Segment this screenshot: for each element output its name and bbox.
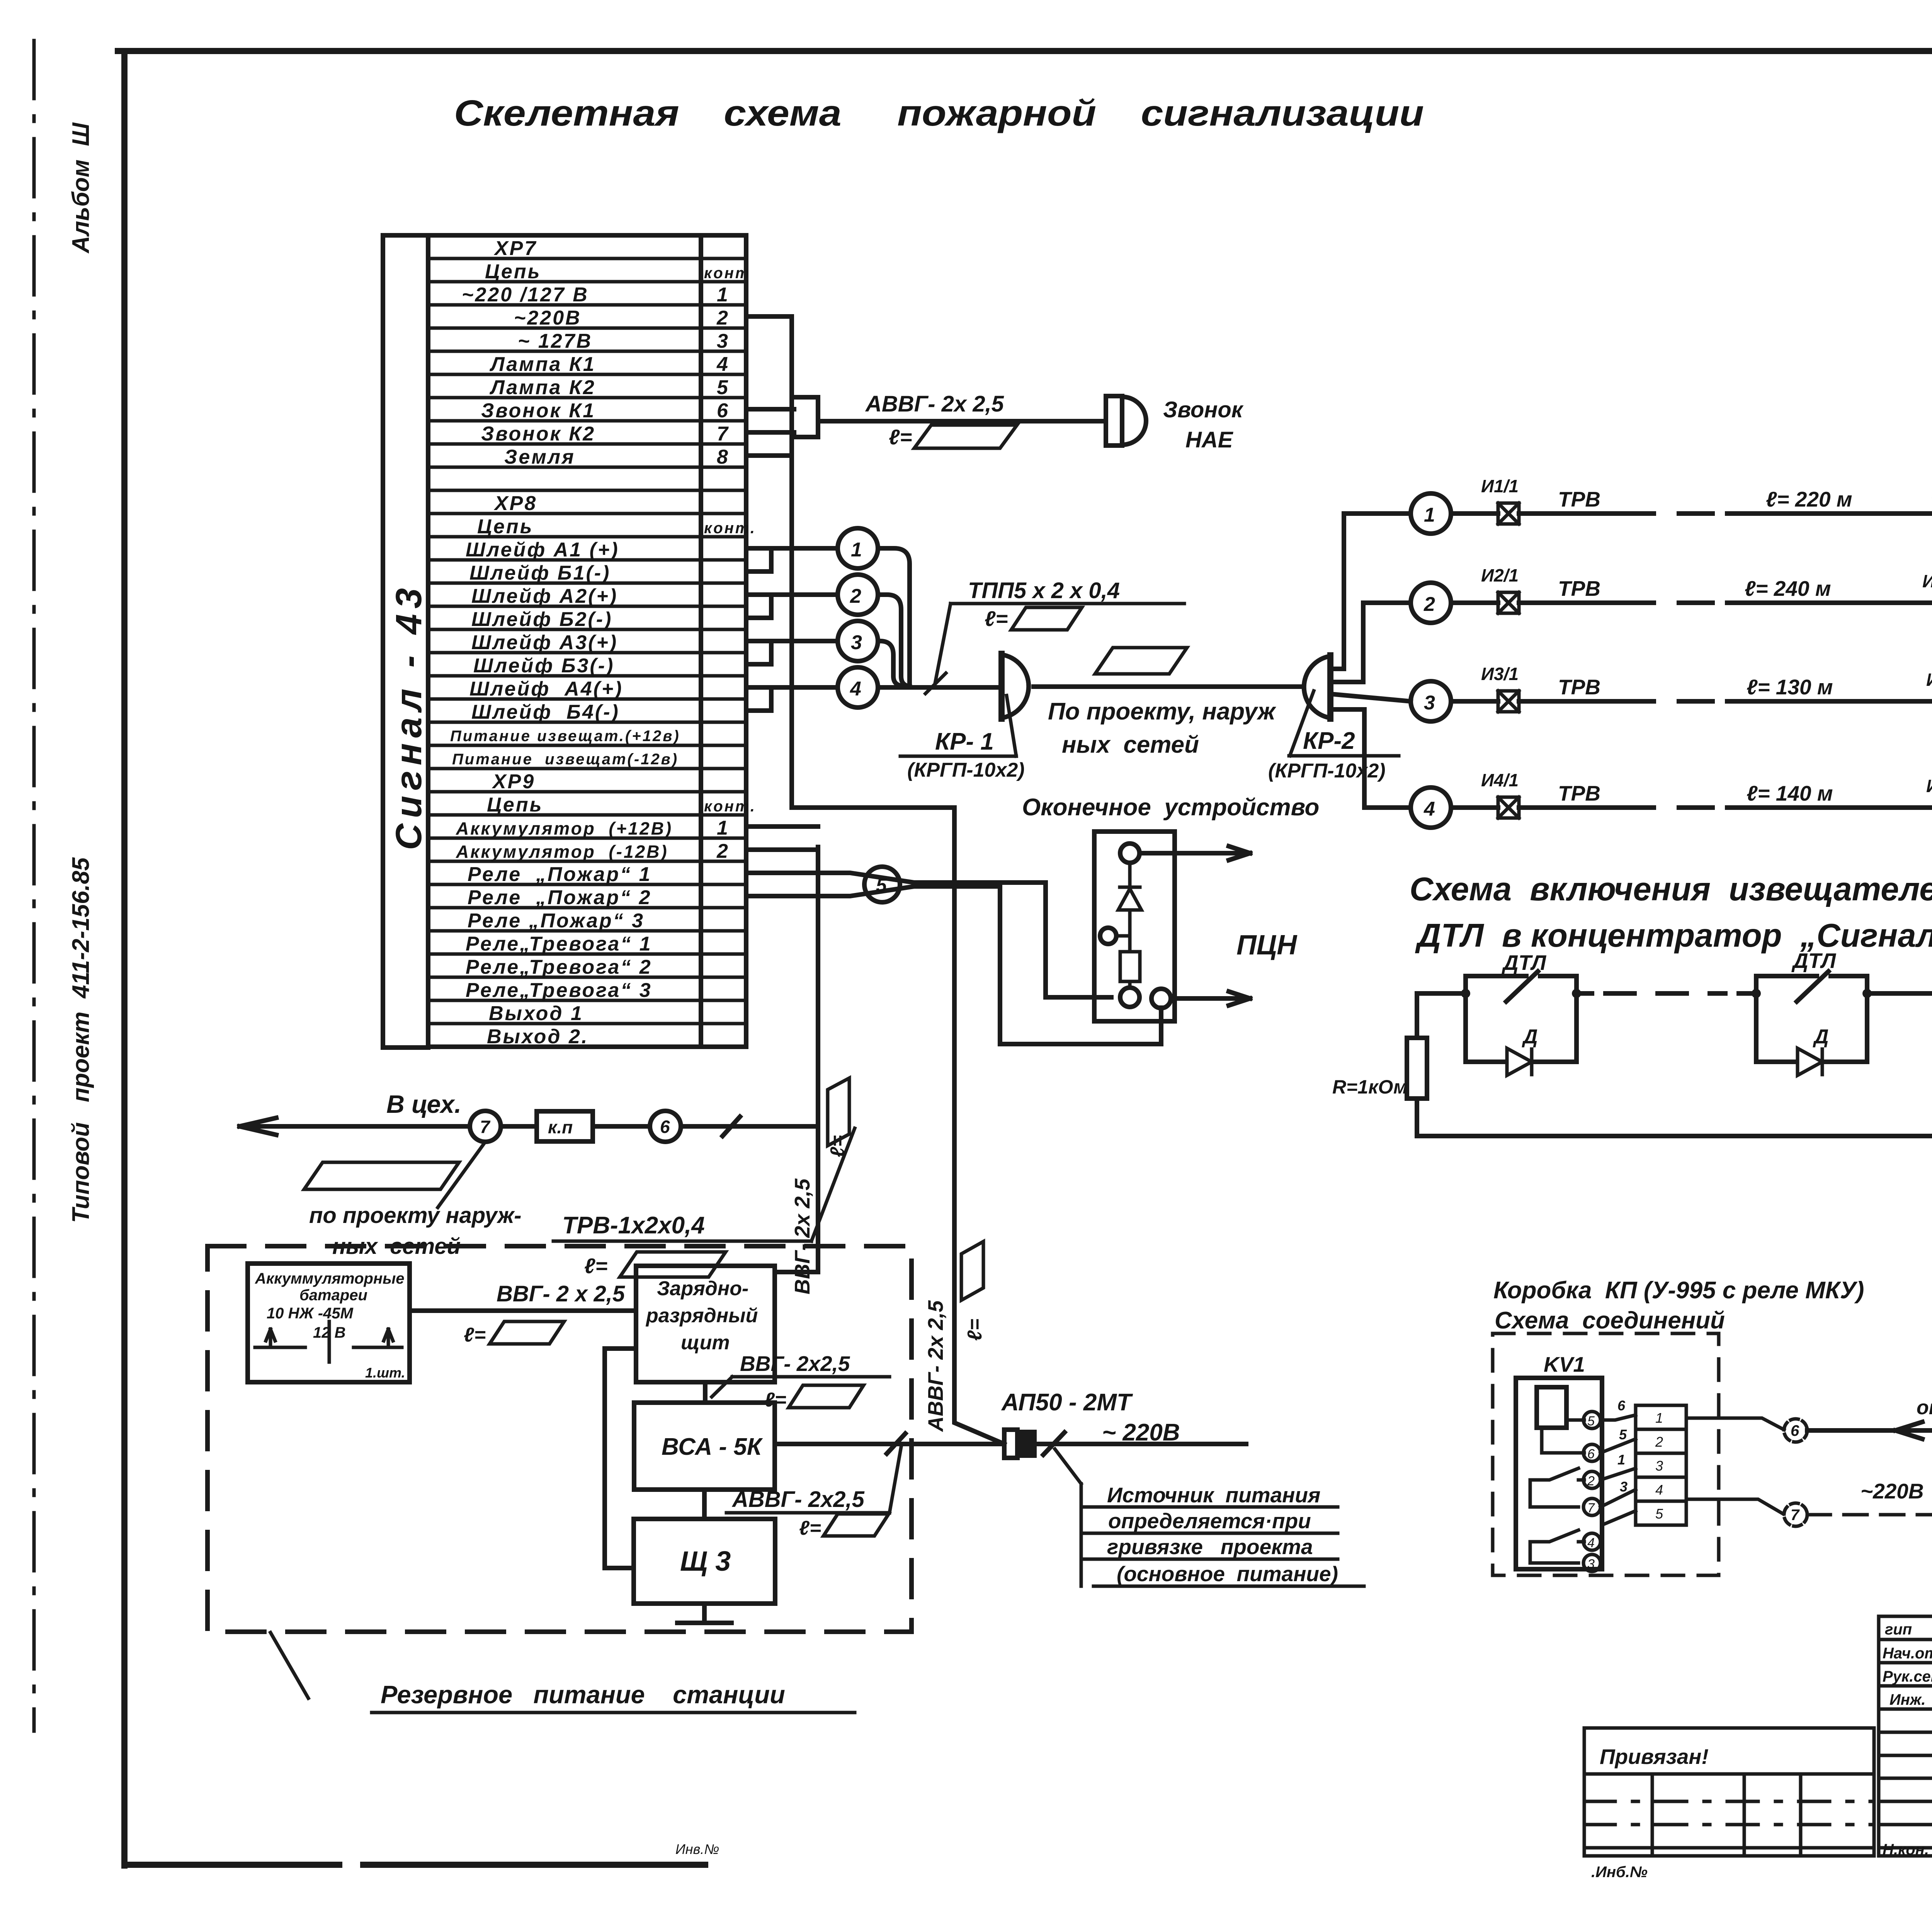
terminal device diode	[1118, 863, 1141, 952]
KP-2 label	[1268, 691, 1399, 782]
svg-text:Питание извещат(-12в): Питание извещат(-12в)	[452, 751, 679, 768]
detector И1/44	[1932, 482, 1932, 524]
node 7 (220V)	[1784, 1503, 1807, 1526]
svg-text:Реле„Тревога“ 1: Реле„Тревога“ 1	[466, 933, 652, 955]
svg-text:КР-2: КР-2	[1303, 728, 1355, 754]
svg-text:Реле„Тревога“ 2: Реле„Тревога“ 2	[466, 956, 652, 978]
cable label АВВГ-2х2,5 (output)	[726, 1447, 901, 1539]
svg-text:щит: щит	[681, 1332, 730, 1354]
connector table row texts	[450, 237, 756, 1048]
svg-text:Щ 3: Щ 3	[680, 1546, 731, 1577]
svg-text:Сигнал - 43: Сигнал - 43	[388, 583, 429, 850]
svg-text:Аккуммуляторные: Аккуммуляторные	[255, 1270, 405, 1287]
parallelogram (outside nets project)	[304, 1162, 459, 1189]
svg-text:ТРВ: ТРВ	[1558, 781, 1600, 805]
sheet frame left	[121, 51, 128, 1866]
wire from strip to node 7	[1686, 1499, 1783, 1514]
board Щ3	[634, 1519, 775, 1604]
detector ДТЛ 2	[1752, 949, 1872, 1002]
loop 4 node circle	[1411, 787, 1451, 828]
detector И4/27	[1926, 776, 1932, 818]
svg-text:7: 7	[1791, 1507, 1800, 1524]
svg-text:разрядный: разрядный	[645, 1304, 758, 1327]
node 5	[864, 867, 900, 902]
svg-text:ХР8: ХР8	[493, 492, 537, 515]
svg-text:ТПП5 х 2 х 0,4: ТПП5 х 2 х 0,4	[968, 578, 1120, 603]
svg-text:1: 1	[1424, 504, 1435, 526]
node 6 circle	[650, 1111, 681, 1142]
detector ДТЛ 1	[1461, 951, 1581, 1002]
diode Д 2	[1756, 993, 1867, 1075]
svg-text:конт: конт	[704, 265, 750, 282]
svg-text:конт.: конт.	[704, 520, 756, 537]
svg-text:1: 1	[1655, 1410, 1663, 1426]
svg-text:И4/1: И4/1	[1481, 770, 1519, 790]
svg-text:ℓ=: ℓ=	[889, 425, 912, 449]
svg-text:Звонок К2: Звонок К2	[481, 423, 595, 445]
svg-text:1: 1	[1617, 1452, 1625, 1468]
charging board (Зарядно-разрядный щит)	[636, 1266, 775, 1382]
svg-text:Питание извещат.(+12в): Питание извещат.(+12в)	[450, 728, 680, 745]
svg-text:КР- 1: КР- 1	[935, 728, 994, 755]
svg-text:6: 6	[717, 400, 730, 422]
title block signature table	[1879, 1616, 1932, 1856]
svg-text:ВВГ- 2 х 2,5: ВВГ- 2 х 2,5	[497, 1281, 625, 1306]
cable label ТРВ-1х2х0,4	[553, 1128, 855, 1278]
svg-text:1: 1	[717, 817, 730, 839]
svg-text:Зарядно-: Зарядно-	[657, 1277, 748, 1300]
terminal device (Оконечное устройство) box	[1094, 832, 1175, 1021]
wire К.П to node 6	[593, 1124, 650, 1129]
wire 220V bus from XP7 pin2 to AP50 switch	[746, 316, 1004, 1444]
terminal device resistor	[1120, 952, 1140, 981]
svg-text:Аккумулятор (+12В): Аккумулятор (+12В)	[456, 818, 673, 838]
wire station feed to charging board	[775, 847, 818, 1272]
wire main trunk to KP-1	[878, 685, 1002, 690]
svg-text:3: 3	[1655, 1458, 1663, 1474]
DTL loop bottom wire	[1417, 1099, 1932, 1136]
battery box	[248, 1264, 410, 1382]
svg-text:2: 2	[1423, 593, 1435, 616]
svg-text:3: 3	[851, 631, 862, 654]
svg-text:Шлейф А2(+): Шлейф А2(+)	[471, 585, 618, 607]
svg-text:4: 4	[850, 678, 861, 700]
svg-text:Реле„Тревога“ 3: Реле„Тревога“ 3	[466, 979, 652, 1002]
svg-text:4: 4	[716, 353, 730, 376]
wire to ПЦН lower arrow	[1171, 992, 1250, 1005]
relay KV1 coil	[1537, 1387, 1566, 1428]
svg-text:И2/45: И2/45	[1922, 571, 1932, 591]
svg-text:1: 1	[851, 539, 862, 561]
svg-text:3: 3	[1424, 692, 1435, 714]
detector loop 2 feeder wire	[1330, 603, 1411, 682]
wire XP9 pin2 stub	[746, 847, 818, 852]
ground symbol	[677, 1604, 731, 1623]
svg-text:Инв.№: Инв.№	[675, 1841, 719, 1857]
svg-text:Цепь: Цепь	[477, 515, 533, 538]
relay contact 2	[1530, 1530, 1584, 1563]
svg-text:ТРВ: ТРВ	[1558, 577, 1600, 600]
svg-text:2: 2	[1587, 1474, 1595, 1488]
svg-text:Реле „Пожар“ 3: Реле „Пожар“ 3	[468, 910, 645, 932]
svg-text:Шлейф А3(+): Шлейф А3(+)	[471, 631, 618, 654]
svg-text:Звонок К1: Звонок К1	[481, 400, 595, 422]
svg-text:5: 5	[1587, 1414, 1595, 1429]
wire to shop (В цех)	[240, 1118, 537, 1135]
svg-text:АВВГ- 2х 2,5: АВВГ- 2х 2,5	[923, 1300, 947, 1432]
wire loop3 to bundle	[878, 641, 902, 686]
svg-text:~220В: ~220В	[1861, 1479, 1924, 1503]
switch АП50-2МТ	[1001, 1389, 1133, 1458]
sheet frame top	[118, 48, 1932, 54]
detector И2/45	[1922, 571, 1932, 613]
detector И3/25	[1926, 670, 1932, 712]
terminal device top pin	[1120, 844, 1139, 863]
svg-text:.Инб.№: .Инб.№	[1591, 1864, 1648, 1881]
svg-text:Схема включения извещателей: Схема включения извещателей	[1410, 871, 1932, 908]
svg-text:к.п: к.п	[548, 1117, 573, 1137]
wire loop1 to bundle	[878, 548, 910, 687]
svg-text:определяется·при: определяется·при	[1108, 1509, 1311, 1533]
wire loop 3 (Шлейф А3/Б3)	[746, 641, 838, 664]
svg-text:НАЕ: НАЕ	[1185, 427, 1234, 452]
label Резервное питание станции	[270, 1633, 855, 1713]
svg-text:Шлейф Б4(-): Шлейф Б4(-)	[471, 701, 620, 723]
svg-text:~220 /127 В: ~220 /127 В	[462, 284, 589, 306]
wire relay Пожар2 to terminal device	[746, 886, 1161, 1044]
wire XP7 pin8 ground stub	[746, 453, 792, 458]
svg-text:ХР7: ХР7	[493, 237, 537, 260]
svg-text:~ 220В: ~ 220В	[1102, 1419, 1180, 1446]
loop 3 node circle	[1411, 681, 1451, 721]
detector И2/1	[1451, 565, 1519, 613]
DTL dashed wire segment	[1605, 991, 1725, 996]
svg-text:R=1кОм: R=1кОм	[1332, 1076, 1408, 1098]
svg-text:6: 6	[1587, 1447, 1595, 1461]
sheet frame bottom	[124, 1862, 705, 1868]
wire from strip to node 6	[1686, 1418, 1784, 1430]
svg-text:Источник питания: Источник питания	[1107, 1483, 1320, 1507]
leader from node 7	[438, 1142, 485, 1207]
svg-text:Шлейф Б1(-): Шлейф Б1(-)	[469, 562, 611, 584]
relay contact 1	[1530, 1468, 1584, 1507]
svg-text:7: 7	[480, 1117, 491, 1137]
node 2	[838, 575, 878, 615]
wire bell line	[818, 419, 1106, 423]
node 6 (to concentrator)	[1784, 1419, 1807, 1442]
svg-text:конт.: конт.	[704, 798, 756, 815]
svg-text:Звонок: Звонок	[1163, 397, 1244, 422]
svg-text:Выход 2.: Выход 2.	[487, 1026, 588, 1048]
terminal strip	[1636, 1405, 1686, 1525]
KP-1 label	[900, 696, 1025, 781]
svg-text:ПЦН: ПЦН	[1236, 930, 1298, 961]
wire 220V supply	[1037, 1432, 1246, 1455]
wire ВСА-5К to Щ3	[702, 1490, 707, 1519]
wire KP-1 to KP-2	[1034, 684, 1299, 689]
detector И4/1	[1451, 770, 1519, 818]
relay pin circles	[1583, 1412, 1600, 1571]
svg-text:6: 6	[1791, 1422, 1799, 1439]
svg-text:ДТЛ в концентратор „Сигнал 4: ДТЛ в концентратор „Сигнал 43”.	[1415, 917, 1932, 954]
wire loop2 to bundle	[878, 595, 910, 686]
cable label ВВГ-2х2,5 (rectifier)	[712, 1352, 889, 1411]
junction box on bell line	[792, 397, 818, 437]
node 4	[838, 667, 878, 707]
svg-text:10 НЖ -45М: 10 НЖ -45М	[267, 1305, 354, 1322]
wire XP7 pin7 bell stub	[746, 430, 794, 435]
svg-text:И4/27: И4/27	[1926, 776, 1932, 796]
wire to КС1 with arrow	[1807, 1506, 1932, 1523]
svg-text:ВСА - 5К: ВСА - 5К	[662, 1434, 763, 1460]
svg-text:(основное питание): (основное питание)	[1117, 1562, 1338, 1586]
junction box KP-2	[1304, 655, 1330, 719]
wire loop 2 (Шлейф А2/Б2)	[746, 595, 838, 618]
loop 2 node circle	[1411, 583, 1451, 623]
length parallelogram on trunk	[1095, 648, 1187, 674]
svg-text:Земля: Земля	[504, 446, 575, 468]
svg-text:Шлейф Б3(-): Шлейф Б3(-)	[473, 655, 614, 677]
svg-text:6: 6	[660, 1117, 670, 1137]
rectifier ВСА-5К	[634, 1403, 775, 1490]
svg-text:7: 7	[717, 423, 730, 445]
svg-text:Инж.: Инж.	[1889, 1691, 1926, 1708]
cable label ВВГ-2х2,5 (vertical, station feed)	[790, 1078, 849, 1294]
svg-text:АВВГ- 2х 2,5: АВВГ- 2х 2,5	[865, 391, 1004, 417]
wire to ПЦН upper arrow	[1139, 846, 1250, 860]
bypass wire	[605, 1349, 636, 1568]
wire node 6 to station	[681, 1117, 818, 1136]
svg-text:ℓ=: ℓ=	[964, 1319, 986, 1341]
terminal device bottom-left pin	[1120, 981, 1139, 1007]
svg-text:ℓ=: ℓ=	[985, 607, 1008, 631]
wire loop 1 (Шлейф А1/Б1)	[746, 548, 838, 571]
svg-text:В цех.: В цех.	[386, 1090, 461, 1118]
svg-text:Д: Д	[1522, 1026, 1538, 1048]
svg-text:Типовой проект 411-2-156.85: Типовой проект 411-2-156.85	[68, 857, 94, 1223]
svg-text:7: 7	[1587, 1501, 1595, 1515]
KP box dashed enclosure	[1493, 1333, 1719, 1575]
svg-text:Оконечное устройство: Оконечное устройство	[1022, 794, 1319, 821]
connector table row lines	[428, 259, 746, 1047]
svg-text:ТРВ: ТРВ	[1558, 675, 1600, 699]
svg-text:АП50 - 2МТ: АП50 - 2МТ	[1001, 1389, 1133, 1416]
loop 1 node circle	[1411, 493, 1451, 534]
svg-text:4: 4	[1423, 798, 1435, 820]
connector table body	[428, 235, 746, 1047]
svg-text:Цепь: Цепь	[485, 260, 541, 283]
reserve power dashed enclosure	[207, 1246, 912, 1632]
svg-text:Нач.отд.: Нач.отд.	[1883, 1645, 1932, 1662]
wire to concentrator with arrow	[1807, 1422, 1932, 1439]
svg-text:KV1: KV1	[1544, 1352, 1585, 1376]
resistor R=1кОм	[1332, 1038, 1427, 1099]
svg-text:ТРВ: ТРВ	[1558, 487, 1600, 511]
svg-text:ℓ= 240 м: ℓ= 240 м	[1745, 577, 1831, 600]
svg-text:Альбом Ш: Альбом Ш	[68, 122, 94, 254]
strip wiring	[1600, 1415, 1636, 1524]
svg-text:ℓ=: ℓ=	[799, 1517, 821, 1539]
svg-text:Привязан!: Привязан!	[1600, 1745, 1709, 1769]
detector loop 3 feeder wire	[1330, 694, 1411, 701]
svg-text:Выход 1: Выход 1	[489, 1002, 583, 1025]
svg-text:Шлейф А4(+): Шлейф А4(+)	[469, 678, 623, 700]
relay KV1 enclosure	[1516, 1378, 1602, 1569]
svg-text:6: 6	[1617, 1398, 1626, 1413]
svg-text:И1/1: И1/1	[1481, 476, 1519, 496]
svg-text:ℓ= 130 м: ℓ= 130 м	[1747, 675, 1833, 699]
detector И1/1	[1451, 476, 1519, 524]
svg-text:ДТЛ: ДТЛ	[1502, 951, 1546, 975]
svg-text:4: 4	[1587, 1536, 1595, 1550]
detector loop 1 feeder wire	[1330, 514, 1411, 669]
node 1	[838, 528, 878, 568]
wire loop 3 line with ТРВ cable	[1519, 699, 1932, 704]
svg-text:Д: Д	[1813, 1026, 1829, 1048]
cable label ТПП5х2х0,4	[925, 578, 1184, 694]
svg-text:ℓ= 220 м: ℓ= 220 м	[1766, 487, 1852, 511]
svg-text:Лампа К1: Лампа К1	[489, 353, 596, 376]
svg-text:И3/1: И3/1	[1481, 664, 1519, 684]
junction box К.П	[537, 1111, 593, 1141]
svg-text:по проекту наруж-: по проекту наруж-	[309, 1203, 522, 1228]
svg-text:5: 5	[1655, 1506, 1663, 1522]
attachment stamp	[1584, 1728, 1874, 1856]
svg-text:Реле „Пожар“ 2: Реле „Пожар“ 2	[468, 886, 651, 909]
svg-text:И2/1: И2/1	[1481, 565, 1519, 585]
svg-text:Реле „Пожар“ 1: Реле „Пожар“ 1	[468, 863, 651, 886]
wire loop 2 line with ТРВ cable	[1519, 600, 1932, 605]
svg-text:Шлейф Б2(-): Шлейф Б2(-)	[471, 608, 612, 631]
svg-text:ТРВ-1х2х0,4: ТРВ-1х2х0,4	[562, 1212, 705, 1239]
svg-text:5: 5	[717, 376, 730, 399]
svg-text:Коробка КП (У-995 с реле МКУ): Коробка КП (У-995 с реле МКУ)	[1493, 1277, 1864, 1304]
svg-text:~ 127В: ~ 127В	[518, 330, 592, 352]
svg-text:Аккумулятор (-12В): Аккумулятор (-12В)	[456, 842, 668, 862]
svg-text:2: 2	[850, 585, 861, 607]
concentrator Сигнал-43 outer bracket	[383, 235, 428, 1048]
svg-text:(КРГП-10х2): (КРГП-10х2)	[1268, 760, 1386, 782]
wire battery to charging board	[410, 1308, 636, 1313]
svg-text:~220В: ~220В	[514, 307, 582, 329]
wire loop 4 (Шлейф А4/Б4)	[746, 687, 838, 711]
detector loop 4 feeder wire	[1330, 709, 1411, 808]
svg-text:И3/25: И3/25	[1926, 670, 1932, 690]
wire loop 4 line with ТРВ cable	[1519, 805, 1932, 810]
svg-text:Скелетная схема пожарно: Скелетная схема пожарной сигнализации	[454, 93, 1424, 134]
wire XP7 pin6 bell stub	[746, 407, 794, 412]
svg-text:ℓ=: ℓ=	[464, 1324, 486, 1346]
junction box KP-1	[1002, 654, 1029, 719]
cable label АВВГ-2х2,5 (vertical, main feed)	[923, 1242, 986, 1432]
svg-text:ℓ= 140 м: ℓ= 140 м	[1747, 781, 1833, 805]
svg-text:ℓ=: ℓ=	[584, 1254, 608, 1278]
svg-text:Рук.сект.: Рук.сект.	[1883, 1668, 1932, 1685]
detector И3/1	[1451, 664, 1519, 712]
margin dash-dot line	[32, 41, 36, 1731]
svg-text:1.шт.: 1.шт.	[365, 1365, 405, 1381]
svg-text:4: 4	[1655, 1482, 1663, 1498]
connector table column divider	[699, 235, 703, 1047]
svg-text:3: 3	[1620, 1479, 1628, 1495]
signature rows text	[1883, 1621, 1932, 1858]
DTL loop top wire	[1417, 993, 1932, 1038]
bell HAЕ	[1106, 396, 1146, 446]
svg-text:По проекту, наруж: По проекту, наруж	[1048, 698, 1277, 725]
terminal device side pin	[1100, 928, 1130, 944]
svg-text:от концентратора: от концентратора	[1917, 1396, 1932, 1419]
svg-text:ДТЛ: ДТЛ	[1791, 949, 1836, 973]
wire XP9 pin1 stub	[746, 824, 818, 829]
svg-text:3: 3	[1587, 1557, 1595, 1571]
svg-text:АВВГ- 2х2,5: АВВГ- 2х2,5	[731, 1487, 865, 1512]
node 7 circle	[470, 1111, 501, 1142]
svg-text:Резервное питание станции: Резервное питание станции	[381, 1680, 785, 1709]
svg-text:2: 2	[716, 840, 730, 862]
relay coil leads	[1542, 1420, 1584, 1453]
svg-text:5: 5	[1619, 1427, 1627, 1442]
svg-text:гип: гип	[1885, 1621, 1912, 1638]
svg-text:Н.кон.: Н.кон.	[1883, 1841, 1929, 1858]
svg-text:Шлейф А1 (+): Шлейф А1 (+)	[466, 539, 619, 561]
svg-text:ХР9: ХР9	[492, 770, 535, 793]
svg-text:Схема соединений: Схема соединений	[1495, 1307, 1725, 1334]
label по проекту наружных сетей	[309, 1203, 522, 1259]
svg-text:2: 2	[1655, 1434, 1663, 1450]
svg-text:8: 8	[717, 446, 730, 468]
wire loop 1 line with ТРВ cable	[1519, 511, 1932, 516]
pin number labels	[1617, 1398, 1628, 1495]
svg-text:ВВГ- 2х2,5: ВВГ- 2х2,5	[740, 1352, 850, 1376]
terminal device bottom-right pin	[1151, 989, 1171, 1008]
svg-text:3: 3	[717, 330, 730, 352]
svg-text:1: 1	[717, 284, 730, 306]
svg-text:Цепь: Цепь	[487, 794, 543, 816]
svg-text:ВВГ- 2х 2,5: ВВГ- 2х 2,5	[790, 1178, 814, 1294]
svg-text:ных сетей: ных сетей	[1062, 731, 1199, 758]
svg-text:(КРГП-10х2): (КРГП-10х2)	[907, 759, 1025, 781]
svg-text:2: 2	[716, 307, 730, 329]
svg-text:5: 5	[876, 874, 887, 896]
wire charging board to ВСА-5К	[703, 1382, 707, 1403]
svg-text:гривязке проекта: гривязке проекта	[1107, 1535, 1313, 1559]
wire relay Пожар1 to terminal device	[746, 873, 1111, 997]
node 3	[838, 621, 878, 661]
wire ВСА-5К to АП50	[775, 1434, 1004, 1454]
supply source note	[1055, 1449, 1364, 1586]
diode Д 1	[1466, 993, 1577, 1075]
svg-text:батареи: батареи	[299, 1287, 367, 1304]
svg-text:Лампа К2: Лампа К2	[489, 376, 596, 399]
cable label ВВГ-2х2,5 (battery)	[464, 1281, 625, 1346]
